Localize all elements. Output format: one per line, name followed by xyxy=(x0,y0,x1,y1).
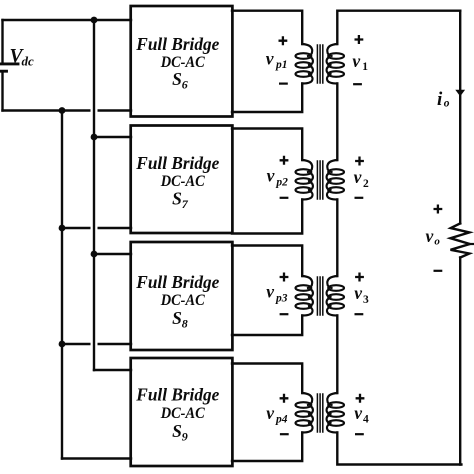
svg-text:v: v xyxy=(426,226,434,246)
transformer T2 primary winding xyxy=(296,160,313,200)
label plus (secondary T1) xyxy=(355,35,364,44)
wire: series link T2 secondary to T3 secondary xyxy=(336,200,338,277)
wire: series link T1 secondary to T2 secondary xyxy=(336,84,338,161)
node: bus B tap for bridge S7 xyxy=(59,225,66,232)
wire: T3 primary bottom to bridge S8 lower output xyxy=(232,316,302,336)
svg-text:9: 9 xyxy=(182,430,188,444)
label vp1 xyxy=(266,49,288,72)
svg-text:8: 8 xyxy=(182,317,188,331)
transformer T2 core xyxy=(317,161,322,199)
transformer T1 primary winding xyxy=(296,44,313,84)
svg-text:Full Bridge: Full Bridge xyxy=(135,272,219,292)
svg-text:o: o xyxy=(444,98,450,110)
transformer T1 secondary winding xyxy=(327,44,344,84)
svg-text:p2: p2 xyxy=(275,176,288,188)
transformer T4 primary winding xyxy=(296,393,313,433)
svg-text:i: i xyxy=(437,89,443,110)
label minus (primary T4) xyxy=(280,433,289,435)
label plus (secondary T2) xyxy=(355,157,364,166)
svg-text:DC-AC: DC-AC xyxy=(160,173,205,190)
svg-text:3: 3 xyxy=(363,294,369,306)
svg-text:v: v xyxy=(354,167,362,187)
label minus (output vo) xyxy=(434,270,443,272)
wire: T1 secondary top to right bus xyxy=(337,11,460,44)
wire: Vdc- to bridge S6 lower input (hop gap over bus A) xyxy=(3,109,132,111)
label minus (secondary T3) xyxy=(355,313,364,315)
wire: right bus upper segment xyxy=(459,11,461,224)
label vo xyxy=(426,226,441,248)
transformer T4 secondary winding xyxy=(327,393,344,433)
label plus (output vo) xyxy=(434,205,443,214)
arrowhead: load current io direction xyxy=(455,90,465,97)
svg-text:DC-AC: DC-AC xyxy=(160,405,205,422)
svg-text:Full Bridge: Full Bridge xyxy=(135,34,219,54)
node: bus A tap for bridge S7 xyxy=(91,134,98,141)
wire: bus A vertical (Vdc+ rail) xyxy=(93,20,95,370)
node: Vdc- wire / bus B junction xyxy=(59,107,66,114)
label plus (secondary T3) xyxy=(355,273,364,282)
svg-text:p3: p3 xyxy=(275,292,288,304)
label minus (secondary T4) xyxy=(355,433,364,435)
svg-text:6: 6 xyxy=(182,78,188,92)
svg-text:v: v xyxy=(354,283,362,303)
wire: T4 primary bottom to bridge S9 lower output xyxy=(232,433,302,462)
svg-text:1: 1 xyxy=(362,61,368,73)
wire: bus B tap to bridge S8 lower input (hop gap over bus A) xyxy=(62,343,131,345)
svg-text:7: 7 xyxy=(182,197,189,211)
svg-text:o: o xyxy=(434,236,440,248)
wire: T1 primary bottom to bridge S6 lower output xyxy=(232,84,302,113)
label Full Bridge DC-AC S9 xyxy=(135,385,219,444)
wire: bus B tap to bridge S7 lower input (hop gap over bus A) xyxy=(62,227,131,229)
transformer T3 core xyxy=(317,277,322,315)
svg-text:v: v xyxy=(352,51,360,71)
svg-text:DC-AC: DC-AC xyxy=(160,54,205,71)
svg-text:Full Bridge: Full Bridge xyxy=(135,385,219,405)
svg-text:v: v xyxy=(266,49,274,69)
label minus (primary T1) xyxy=(279,82,288,84)
label v1 xyxy=(352,51,368,73)
full-bridge DC-AC converter box S8 xyxy=(131,242,233,350)
wire: bridge S7 upper output to T2 primary top xyxy=(232,129,302,161)
label io xyxy=(437,89,450,110)
svg-text:p1: p1 xyxy=(275,59,288,71)
resistor load (output) zigzag xyxy=(450,223,469,257)
label minus (primary T3) xyxy=(280,313,289,315)
wire: bus A tap to bridge S8 upper input xyxy=(94,253,131,255)
transformer T1 core xyxy=(317,45,322,83)
label Full Bridge DC-AC S8 xyxy=(135,272,219,331)
svg-text:4: 4 xyxy=(363,414,369,426)
full-bridge DC-AC converter box S9 xyxy=(131,358,233,466)
svg-text:S: S xyxy=(172,308,182,328)
wire: bridge S6 upper output to T1 primary top xyxy=(232,11,302,44)
label Full Bridge DC-AC S6 xyxy=(135,34,219,92)
label plus (primary T4) xyxy=(280,394,289,403)
label vp4 xyxy=(266,403,288,426)
label plus (primary T3) xyxy=(280,273,289,282)
svg-text:v: v xyxy=(266,403,274,423)
full-bridge DC-AC converter box S7 xyxy=(131,126,233,234)
wire: series link T3 secondary to T4 secondary xyxy=(336,316,338,394)
wire: bridge S9 upper output to T4 primary top xyxy=(232,364,302,394)
wire: T2 primary bottom to bridge S7 lower output xyxy=(232,200,302,234)
node: bus B tap for bridge S8 xyxy=(59,341,66,348)
wire: bus B vertical (Vdc- rail) xyxy=(61,111,63,459)
label minus (secondary T1) xyxy=(353,83,362,85)
wire: bus A tap to bridge S7 upper input xyxy=(94,136,131,138)
transformer T3 secondary winding xyxy=(327,276,344,316)
wire: T4 secondary bottom to bottom return bus xyxy=(337,433,461,465)
wire: bus B elbow to bridge S9 lower input xyxy=(62,457,131,459)
label v3 xyxy=(354,283,369,306)
svg-text:S: S xyxy=(172,189,182,209)
transformer T3 primary winding xyxy=(296,276,313,316)
label minus (primary T2) xyxy=(280,197,289,199)
label plus (secondary T4) xyxy=(356,394,365,403)
transformer T4 core xyxy=(317,394,322,432)
svg-text:v: v xyxy=(354,403,362,423)
wire: top bus Vdc+ to bridge S6 upper input xyxy=(3,19,132,21)
svg-text:S: S xyxy=(172,69,182,89)
label vp3 xyxy=(266,282,288,305)
wire: Vdc positive lead xyxy=(1,20,3,63)
svg-text:S: S xyxy=(172,421,182,441)
label minus (secondary T2) xyxy=(355,197,364,199)
label plus (primary T2) xyxy=(280,156,289,165)
full-bridge DC-AC converter box S6 xyxy=(131,6,233,117)
label Vdc xyxy=(10,46,35,69)
label plus (primary T1) xyxy=(279,36,288,45)
svg-text:Full Bridge: Full Bridge xyxy=(135,153,219,173)
svg-text:dc: dc xyxy=(22,53,35,68)
svg-text:DC-AC: DC-AC xyxy=(160,292,205,309)
label Full Bridge DC-AC S7 xyxy=(135,153,219,211)
svg-text:v: v xyxy=(267,166,275,186)
svg-text:2: 2 xyxy=(363,178,369,190)
label vp2 xyxy=(267,166,289,189)
wire: bridge S8 upper output to T3 primary top xyxy=(232,246,302,277)
wire: Vdc negative lead xyxy=(1,71,3,110)
label v4 xyxy=(354,403,369,426)
node: bus A tap for bridge S8 xyxy=(91,251,98,258)
wire: bus A elbow to bridge S9 upper input xyxy=(94,369,131,371)
label v2 xyxy=(354,167,369,190)
transformer T2 secondary winding xyxy=(327,160,344,200)
svg-text:p4: p4 xyxy=(275,414,288,426)
node: top bus / bus A junction xyxy=(91,17,98,24)
voltage source Vdc battery plates xyxy=(0,64,18,71)
svg-text:v: v xyxy=(266,282,274,302)
wire: right bus lower segment xyxy=(459,258,461,465)
wire: resistor side stub (cropped at image edge) xyxy=(470,243,474,245)
